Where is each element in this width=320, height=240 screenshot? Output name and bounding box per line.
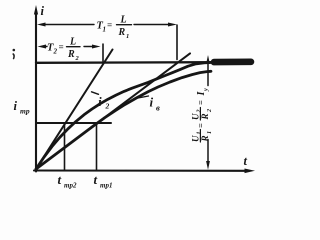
i2 curve label leader dash	[92, 92, 99, 95]
svg-text:2: 2	[53, 48, 58, 56]
svg-text:t: t	[58, 172, 62, 187]
svg-text:1: 1	[126, 33, 129, 40]
y-axis arrowhead	[34, 5, 38, 15]
svg-text:t: t	[94, 172, 98, 187]
T2 tick (vertical at t=T2)	[102, 44, 104, 61]
t_tr1 tick	[96, 123, 98, 170]
svg-text:t: t	[244, 154, 248, 168]
curve i2	[36, 63, 211, 170]
T2 dimension line with left arrow	[38, 45, 47, 49]
svg-text:1: 1	[207, 131, 213, 134]
t_tr2 tick	[64, 123, 66, 170]
svg-text:i: i	[14, 99, 18, 113]
svg-text:L: L	[120, 15, 127, 26]
svg-text:R: R	[67, 49, 75, 60]
rotated value label U1/R1 = U2/R2 = I_y	[191, 88, 213, 143]
right dimension line lower segment with down arrow	[207, 140, 209, 164]
T1 fraction L/R1	[117, 24, 132, 26]
svg-text:i: i	[98, 94, 102, 109]
svg-text:R: R	[200, 113, 210, 120]
svg-text:=: =	[59, 42, 64, 52]
svg-text:2: 2	[197, 110, 203, 114]
svg-text:тр: тр	[20, 107, 30, 116]
y-axis	[35, 11, 37, 172]
svg-text:1: 1	[197, 132, 203, 135]
T1 dimension line left segment with left arrow	[37, 23, 46, 27]
tangent line for T1 (shallow)	[36, 53, 190, 169]
svg-text:2: 2	[207, 109, 213, 113]
T1 tick (vertical at t=T1)	[176, 25, 178, 60]
left margin speck (semicolon-like mark)	[13, 49, 16, 52]
svg-text:R: R	[200, 135, 210, 142]
svg-text:тр2: тр2	[64, 182, 77, 190]
curve i1	[36, 71, 211, 169]
i_tr level line	[36, 122, 111, 124]
i1 (i_v) curve label leader dash	[138, 96, 149, 98]
tangent line for T2 (steep)	[36, 50, 113, 170]
svg-text:1: 1	[103, 26, 107, 34]
svg-text:тр1: тр1	[100, 182, 112, 190]
svg-text:у: у	[202, 88, 209, 92]
svg-text:=: =	[107, 20, 112, 30]
svg-text:=: =	[196, 100, 206, 105]
T1 dimension line right segment with right arrow	[134, 24, 169, 26]
svg-text:i: i	[150, 95, 154, 110]
svg-text:R: R	[118, 27, 126, 38]
svg-text:i: i	[41, 4, 45, 18]
svg-text:L: L	[69, 37, 76, 48]
steady-state thick end stroke	[214, 58, 251, 65]
x-axis arrowhead	[245, 169, 256, 174]
svg-text:в: в	[156, 103, 160, 113]
steady-state level line	[36, 61, 218, 64]
T2 dimension line right segment with right arrow	[84, 46, 93, 48]
x-axis	[34, 169, 246, 171]
T2 fraction L/R2	[67, 46, 81, 48]
right dimension line upper segment with up arrow	[206, 55, 210, 64]
svg-text:=: =	[196, 123, 206, 128]
svg-text:2: 2	[105, 102, 110, 111]
